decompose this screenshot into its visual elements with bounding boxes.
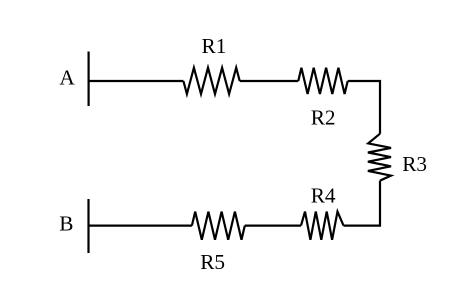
- terminal A bar: [87, 52, 89, 107]
- wire R2 to top-right corner: [348, 81, 380, 134]
- terminal B bar: [87, 199, 89, 253]
- wire A to R1: [89, 80, 184, 82]
- svg-text:R1: R1: [202, 34, 227, 58]
- resistor R5: [192, 212, 245, 240]
- wire R4 to R5: [245, 225, 301, 227]
- svg-text:R5: R5: [200, 250, 225, 274]
- wire R5 to B: [89, 225, 192, 227]
- svg-text:R4: R4: [311, 184, 336, 208]
- resistor R1: [183, 68, 239, 94]
- svg-text:R3: R3: [402, 152, 427, 176]
- svg-text:A: A: [59, 66, 75, 90]
- resistor R4: [301, 212, 344, 240]
- svg-text:R2: R2: [311, 106, 336, 130]
- svg-text:B: B: [59, 212, 73, 236]
- wire R3 to bottom-right corner to R4: [344, 181, 381, 226]
- resistor R2: [298, 68, 347, 94]
- resistor R3: [368, 134, 391, 181]
- wire R1 to R2: [240, 80, 299, 82]
